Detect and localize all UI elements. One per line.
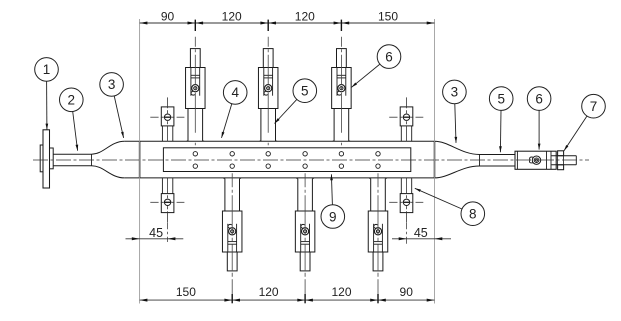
balloon 3 (6)	[455, 104, 456, 143]
svg-text:9: 9	[329, 209, 337, 224]
drain port top-right	[389, 97, 423, 141]
svg-text:150: 150	[176, 285, 196, 299]
svg-text:120: 120	[259, 285, 279, 299]
svg-text:8: 8	[469, 207, 477, 222]
balloon 5 (7)	[499, 110, 502, 152]
reducer cone item 3 right	[435, 141, 480, 154]
drain port bottom-right	[389, 178, 423, 222]
svg-text:120: 120	[295, 9, 315, 23]
manifold shell top edge	[125, 140, 435, 142]
svg-text:6: 6	[385, 49, 393, 64]
mounting plate item 9	[163, 148, 410, 172]
bottom valve 3	[368, 178, 388, 271]
main centerline	[33, 159, 589, 161]
flange raised face	[50, 148, 54, 169]
port extension line left	[167, 222, 169, 242]
svg-text:1: 1	[43, 62, 51, 77]
svg-text:4: 4	[231, 85, 239, 100]
bottom valve 2 centerline	[304, 173, 306, 302]
svg-text:45: 45	[149, 226, 163, 240]
pipe-reducer weld	[91, 154, 93, 166]
manifold shell bottom edge	[125, 177, 435, 179]
valve item 6 right body	[515, 151, 556, 169]
svg-text:2: 2	[68, 93, 76, 108]
svg-text:150: 150	[378, 9, 398, 23]
bottom valve 1	[222, 178, 242, 271]
reducer cone item 3 left	[92, 141, 125, 154]
svg-text:120: 120	[331, 285, 351, 299]
bottom valve 3 centerline	[377, 173, 379, 302]
balloon 9 (11)	[331, 174, 332, 204]
bottom dimension chain	[140, 299, 435, 301]
balloon 1 (0)	[46, 81, 48, 129]
balloon 8 (10)	[415, 188, 462, 209]
top valve 2 centerline	[267, 37, 269, 147]
svg-text:45: 45	[414, 226, 428, 240]
svg-text:5: 5	[497, 91, 505, 106]
balloon 4 (3)	[222, 104, 232, 138]
inlet pipe item 2	[53, 153, 91, 155]
top dimension chain	[140, 22, 435, 24]
valve 6R wingnut	[532, 156, 540, 164]
outlet pipe item 5 right	[480, 154, 516, 156]
drain port bottom-left	[150, 178, 184, 222]
bottom valve 2	[295, 178, 315, 271]
outlet pipe weld	[479, 155, 481, 167]
extension line left	[139, 19, 141, 304]
svg-text:3: 3	[451, 85, 459, 100]
balloon 6 (8)	[538, 110, 540, 149]
top valve 3 centerline	[340, 37, 342, 147]
dim 45 right	[392, 238, 451, 240]
top valve 1 centerline	[194, 37, 196, 147]
weld seam right	[434, 141, 436, 178]
svg-text:90: 90	[161, 9, 175, 23]
extension line right	[434, 19, 436, 304]
top valve 1	[186, 49, 206, 142]
union nut item 7	[558, 151, 564, 156]
flange item 1	[43, 130, 50, 188]
svg-text:90: 90	[400, 285, 414, 299]
svg-text:3: 3	[108, 77, 116, 92]
svg-text:7: 7	[590, 99, 598, 114]
balloon 2 (1)	[73, 112, 78, 151]
port extension line right	[406, 222, 408, 246]
svg-text:120: 120	[222, 9, 242, 23]
drain port top-left item 8	[150, 97, 184, 141]
top valve 3	[332, 49, 352, 142]
svg-text:6: 6	[535, 91, 543, 106]
flange back stub	[40, 145, 43, 172]
top valve 2	[258, 49, 278, 142]
balloon 3 (2)	[114, 96, 123, 138]
weld seam left	[139, 141, 141, 178]
svg-text:5: 5	[301, 84, 309, 99]
outlet stub pipe	[552, 155, 577, 157]
balloon 5 (4)	[275, 99, 297, 123]
bottom valve 1 centerline	[231, 173, 233, 302]
balloon 7 (9)	[564, 116, 587, 151]
dim 45 left	[126, 238, 184, 240]
bolt holes (12x)	[193, 152, 197, 156]
balloon 6 (5)	[352, 64, 380, 87]
